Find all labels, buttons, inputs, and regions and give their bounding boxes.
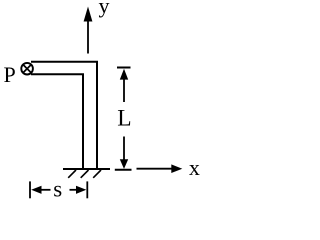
svg-text:L: L: [117, 105, 131, 131]
ground hatch 2: [81, 170, 89, 178]
dimension L top tick: [117, 67, 131, 69]
dimension s left tick: [29, 181, 31, 198]
svg-text:s: s: [53, 177, 62, 202]
load P symbol (circle with cross): [21, 63, 33, 75]
label y: [99, 0, 110, 18]
dimension s left arrow: [31, 186, 50, 194]
svg-text:P: P: [4, 62, 16, 87]
dimension L up arrow: [120, 69, 128, 102]
ground hatch 3: [93, 170, 101, 178]
svg-text:y: y: [99, 0, 110, 18]
dimension s right tick: [86, 181, 88, 198]
label P: [4, 62, 16, 87]
svg-text:x: x: [189, 155, 200, 180]
ground hatch 1: [68, 170, 76, 178]
ground line: [63, 168, 110, 170]
label x: [189, 155, 200, 180]
beam inner edge (horizontal member bottom + column left side): [31, 74, 83, 168]
dimension L bottom tick: [115, 169, 132, 171]
label s: [53, 177, 62, 202]
dimension L down arrow: [120, 137, 128, 169]
beam outer edge (horizontal member top + column right side): [31, 62, 97, 169]
dimension s right arrow: [70, 186, 87, 194]
x-axis arrow: [137, 164, 183, 173]
label L: [117, 105, 131, 131]
y-axis arrow: [84, 7, 93, 54]
